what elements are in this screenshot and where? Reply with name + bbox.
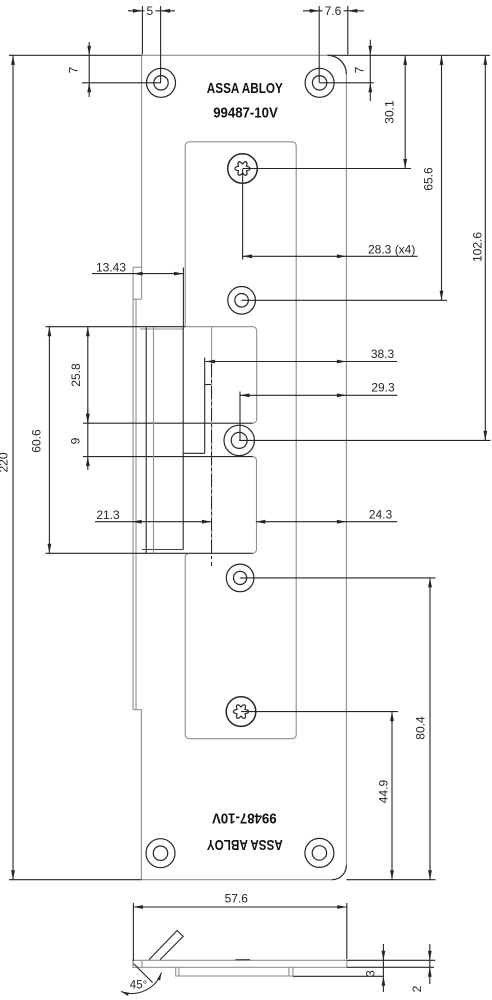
keeper pocket left edge (204, 358, 206, 454)
dim 60.6 (48, 327, 50, 554)
keeper upper block (gray right outline) (185, 327, 257, 424)
top extension line left (9, 54, 142, 56)
svg-text:2: 2 (410, 985, 424, 992)
side view keeper box (176, 967, 293, 976)
hole lower (226, 564, 254, 592)
keeper top edge second line (140, 328, 184, 330)
svg-text:ASSA ABLOY: ASSA ABLOY (207, 836, 283, 853)
dim 7 (right of top-right hole) (369, 40, 371, 101)
svg-text:60.6: 60.6 (30, 429, 44, 453)
keeper pocket top connector (205, 384, 212, 386)
svg-text:21.3: 21.3 (96, 508, 120, 522)
top extension line right (328, 54, 490, 56)
hole center (224, 425, 254, 455)
plate left-edge lip details (133, 266, 142, 268)
keeper left edge (182, 327, 184, 550)
svg-text:7: 7 (353, 66, 367, 73)
svg-text:28.3 (x4): 28.3 (x4) (368, 242, 415, 256)
dim 7 (left of top-left hole) (88, 42, 90, 97)
dim 220 (12, 55, 14, 879)
dim 44.9 (391, 712, 393, 880)
keeper vertical line a (145, 327, 147, 553)
side view small top mark (235, 959, 250, 961)
dim 57.6 (132, 903, 134, 961)
plate bottom-right corner arc (dark) (332, 865, 347, 880)
svg-text:ASSA ABLOY: ASSA ABLOY (207, 80, 283, 97)
svg-text:5: 5 (146, 4, 153, 18)
dim 38.3 (206, 361, 398, 363)
corner hole bottom-right (305, 838, 334, 867)
svg-text:7: 7 (67, 66, 81, 73)
inner cutout lower portion (185, 554, 296, 739)
inner cutout upper portion (185, 142, 296, 735)
svg-text:220: 220 (0, 452, 11, 472)
plate outline (front view) (141, 55, 346, 879)
corner hole top-right (305, 68, 334, 97)
svg-text:3: 3 (364, 970, 378, 977)
dim 9 (87, 409, 89, 470)
dim 65.6 (441, 55, 443, 300)
leader from lower hole (240, 577, 435, 579)
svg-text:57.6: 57.6 (225, 892, 249, 906)
svg-text:13.43: 13.43 (96, 261, 126, 275)
side view plate bar (133, 960, 347, 967)
dim 3 (382, 944, 384, 992)
45 degree arc with arrows (121, 973, 162, 994)
dim 29.3 (239, 392, 241, 441)
dim 5 (top left) (128, 10, 175, 12)
keeper bottom second line (142, 549, 183, 551)
corner hole top-left (147, 68, 176, 97)
dim 13.43 (92, 273, 183, 275)
torx screw bottom (226, 697, 256, 727)
plate top-right corner arc (dark) (328, 55, 347, 74)
keeper top edge (46, 326, 186, 328)
leader from top torx (243, 168, 412, 170)
leader from upper hole (242, 299, 447, 301)
svg-text:25.8: 25.8 (69, 363, 83, 387)
latch centerline (dash-dot) (211, 364, 213, 566)
svg-text:9: 9 (69, 437, 83, 444)
side view bend tick (141, 960, 143, 967)
side top surface ext (347, 959, 435, 961)
svg-text:65.6: 65.6 (422, 167, 436, 191)
dim 30.1 (404, 55, 406, 168)
side keeper bottom ext (293, 975, 383, 977)
dim 25.8 (87, 327, 89, 424)
svg-text:99487-10V: 99487-10V (212, 810, 277, 827)
svg-text:45°: 45° (130, 980, 147, 992)
svg-text:80.4: 80.4 (414, 716, 428, 740)
torx screw top (228, 154, 258, 184)
svg-text:7.6: 7.6 (325, 4, 342, 18)
leader from center hole (239, 439, 490, 441)
side bar bottom ext (347, 966, 434, 968)
dim 102.6 (484, 55, 486, 440)
side view 45-degree lip (149, 931, 183, 960)
hole upper (228, 287, 256, 315)
svg-text:29.3: 29.3 (371, 381, 395, 395)
dim 28.3 (x4) (242, 169, 244, 259)
upper block bottom edge / 25.8 ext (83, 422, 253, 424)
bottom extension line left (9, 879, 141, 881)
dim 21.3 (95, 521, 211, 523)
dim 80.4 (429, 578, 431, 880)
dim 24.3 (256, 521, 397, 523)
leader from bottom torx (241, 711, 398, 713)
svg-text:99487-10V: 99487-10V (213, 105, 278, 122)
svg-text:102.6: 102.6 (471, 232, 485, 262)
svg-text:38.3: 38.3 (371, 347, 395, 361)
svg-text:30.1: 30.1 (383, 100, 397, 124)
svg-text:24.3: 24.3 (369, 507, 393, 521)
keeper vertical line b (153, 327, 155, 553)
keeper bottom edge / 60.6 ext (46, 552, 253, 554)
bottom extension line right (346, 879, 435, 881)
svg-text:44.9: 44.9 (377, 779, 391, 803)
dim 2 (429, 944, 431, 984)
lower block top edge / 9 ext (83, 456, 253, 458)
dim 7.6 (top right) (303, 10, 364, 12)
45 degree reference line (134, 964, 153, 983)
keeper center gray line (211, 327, 213, 554)
keeper lower block (gray right outline) (253, 457, 257, 554)
keeper pocket bottom (183, 452, 205, 454)
corner hole bottom-left (146, 839, 175, 868)
